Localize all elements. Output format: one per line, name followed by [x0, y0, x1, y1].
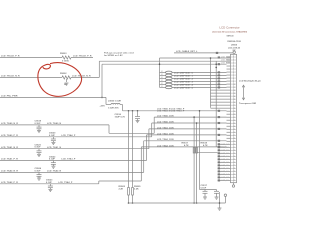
svg-text:LCD_TXA0_N_R: LCD_TXA0_N_R	[1, 122, 18, 125]
svg-text:2.2K: 2.2K	[134, 188, 139, 190]
svg-text:LCD_PWR: LCD_PWR	[221, 63, 231, 65]
svg-text:0.1UF: 0.1UF	[35, 147, 42, 149]
svg-text:19: 19	[233, 111, 235, 113]
svg-text:11: 11	[233, 87, 235, 89]
svg-text:LCD_TXA0_N: LCD_TXA0_N	[47, 122, 62, 125]
svg-text:33: 33	[233, 153, 235, 155]
svg-text:LCD_TXA1_N: LCD_TXA1_N	[47, 146, 62, 149]
svg-text:LCD_TXA0_CON: LCD_TXA0_CON	[157, 120, 174, 123]
svg-text:4.7K: 4.7K	[184, 144, 189, 147]
svg-text:LCD_G3: LCD_G3	[221, 153, 228, 155]
svg-text:LCD_DISPTEST_4: LCD_DISPTEST_4	[174, 83, 194, 86]
svg-text:17: 17	[233, 105, 235, 107]
svg-text:29: 29	[233, 141, 235, 143]
svg-text:0.1UF: 0.1UF	[46, 182, 53, 184]
svg-text:39: 39	[233, 171, 235, 173]
svg-text:LCD_VCC: LCD_VCC	[221, 56, 231, 58]
svg-text:R9503: R9503	[60, 53, 67, 55]
svg-text:Transparent 30R: Transparent 30R	[239, 102, 257, 105]
svg-text:LCD_TXA2_N: LCD_TXA2_N	[47, 170, 62, 173]
svg-text:R9502: R9502	[60, 73, 67, 75]
svg-text:LCD_TXCLK_P_R: LCD_TXCLK_P_R	[1, 56, 20, 58]
svg-text:38: 38	[233, 168, 235, 170]
svg-text:LCD_TEST: LCD_TEST	[221, 60, 232, 62]
svg-text:10: 10	[233, 84, 235, 86]
svg-text:22: 22	[233, 120, 235, 122]
svg-text:0.1UF: 0.1UF	[35, 170, 42, 172]
svg-text:41: 41	[233, 176, 235, 179]
svg-text:2.2K: 2.2K	[119, 188, 124, 190]
svg-text:15: 15	[233, 99, 235, 101]
svg-text:20: 20	[233, 114, 235, 116]
svg-text:27: 27	[233, 135, 235, 137]
svg-text:LCD Backlight 40-pin: LCD Backlight 40-pin	[239, 80, 262, 83]
svg-text:13: 13	[233, 93, 235, 95]
svg-text:25: 25	[233, 129, 235, 131]
svg-text:+3VS: +3VS	[100, 106, 106, 108]
svg-text:LCD_G1: LCD_G1	[221, 171, 228, 173]
svg-text:0.1UF: 0.1UF	[201, 187, 207, 189]
svg-text:LCD_TXA0_P: LCD_TXA0_P	[61, 134, 76, 137]
svg-text:LCD_TXCLK_P_R: LCD_TXCLK_P_R	[73, 56, 92, 58]
svg-text:42: 42	[233, 179, 235, 182]
svg-text:LCD_DISPTEST_5: LCD_DISPTEST_5	[174, 87, 194, 89]
svg-text:0.1UF: 0.1UF	[35, 123, 42, 125]
svg-text:LCD_G2: LCD_G2	[221, 162, 228, 164]
svg-text:LCD_DISPTEST_3: LCD_DISPTEST_3	[174, 81, 194, 83]
svg-text:36: 36	[233, 162, 235, 164]
svg-text:LCD_G7: LCD_G7	[221, 177, 228, 179]
svg-text:30: 30	[233, 144, 235, 146]
svg-text:37: 37	[233, 165, 235, 167]
svg-text:18: 18	[233, 108, 235, 110]
svg-text:21: 21	[233, 117, 235, 119]
svg-text:40: 40	[233, 173, 235, 176]
svg-text:LCD_PNL_PWR: LCD_PNL_PWR	[1, 96, 18, 98]
svg-text:23: 23	[233, 123, 235, 125]
svg-text:LCD_TXA2_P_R: LCD_TXA2_P_R	[1, 181, 18, 184]
svg-text:LCD_TXA2_N_R: LCD_TXA2_N_R	[1, 170, 18, 173]
svg-text:LCD_G5: LCD_G5	[221, 165, 228, 167]
svg-text:LCD_G0: LCD_G0	[221, 150, 228, 152]
svg-text:LCD_CABLE_DET_L: LCD_CABLE_DET_L	[176, 50, 198, 53]
svg-text:0.1UF: 0.1UF	[49, 159, 56, 161]
svg-text:0.1UF: 0.1UF	[49, 135, 56, 137]
svg-text:LCD_G4: LCD_G4	[221, 173, 229, 176]
svg-text:(Internal 30 Connector, S7A637: (Internal 30 Connector, S7A63797)	[212, 31, 247, 34]
svg-text:LCD_DISPTEST_1: LCD_DISPTEST_1	[174, 75, 194, 77]
svg-text:CN9500LCD30: CN9500LCD30	[227, 41, 242, 43]
svg-text:LCD_TXA1_CON: LCD_TXA1_CON	[157, 132, 174, 135]
svg-text:SMT-30: SMT-30	[226, 35, 234, 37]
svg-text:LCD_G4: LCD_G4	[221, 143, 229, 146]
svg-text:J9500: J9500	[231, 45, 238, 47]
svg-text:LCD_DISPTEST_0: LCD_DISPTEST_0	[174, 72, 194, 74]
svg-text:26: 26	[233, 132, 235, 134]
svg-text:for SPWG on 1.8V: for SPWG on 1.8V	[104, 55, 123, 57]
svg-text:LCD_TXA0_P_R: LCD_TXA0_P_R	[1, 134, 18, 137]
svg-text:10UF 6.3V: 10UF 6.3V	[115, 116, 126, 118]
svg-text:LCD_TXA2_CON: LCD_TXA2_CON	[157, 138, 174, 141]
svg-text:LCD_TXA1_P: LCD_TXA1_P	[61, 158, 76, 161]
svg-text:28: 28	[233, 138, 235, 140]
svg-text:LCD_G9: LCD_G9	[221, 159, 228, 161]
svg-text:0 1005: 0 1005	[62, 61, 69, 63]
svg-text:LCD_TXCLK_N_R: LCD_TXCLK_N_R	[1, 76, 20, 78]
svg-text:LCD_TXA2_CON: LCD_TXA2_CON	[157, 144, 174, 147]
svg-text:LCD_G0: LCD_G0	[221, 180, 228, 182]
svg-text:LCD Connector: LCD Connector	[219, 25, 239, 29]
svg-text:L9500 1.0UH: L9500 1.0UH	[108, 101, 121, 103]
svg-text:LCD_TXA0_CON: LCD_TXA0_CON	[157, 115, 174, 118]
svg-text:16: 16	[233, 102, 235, 104]
svg-text:LCD_G6: LCD_G6	[221, 156, 228, 158]
svg-text:4.7K: 4.7K	[203, 144, 208, 147]
svg-text:32: 32	[233, 150, 235, 152]
svg-text:35: 35	[233, 159, 235, 161]
svg-text:LCD_DISPTEST_2: LCD_DISPTEST_2	[174, 78, 194, 80]
svg-text:12: 12	[233, 90, 235, 92]
svg-text:LCD_G8: LCD_G8	[221, 168, 228, 170]
svg-text:LCD_TXA1_CON: LCD_TXA1_CON	[157, 126, 174, 129]
svg-text:LCD_TXA1_P_R: LCD_TXA1_P_R	[1, 158, 18, 161]
svg-text:LCD_G7: LCD_G7	[221, 147, 228, 149]
svg-text:LCD_TXA1_N LCD_TXA1_P: LCD_TXA1_N LCD_TXA1_P	[157, 110, 185, 113]
svg-text:LCD_TXA2_P: LCD_TXA2_P	[58, 181, 73, 184]
svg-text:31: 31	[233, 147, 235, 149]
svg-text:LCD_TXA1_N_R: LCD_TXA1_N_R	[1, 146, 18, 149]
svg-text:1.0UH 20%: 1.0UH 20%	[108, 107, 119, 109]
